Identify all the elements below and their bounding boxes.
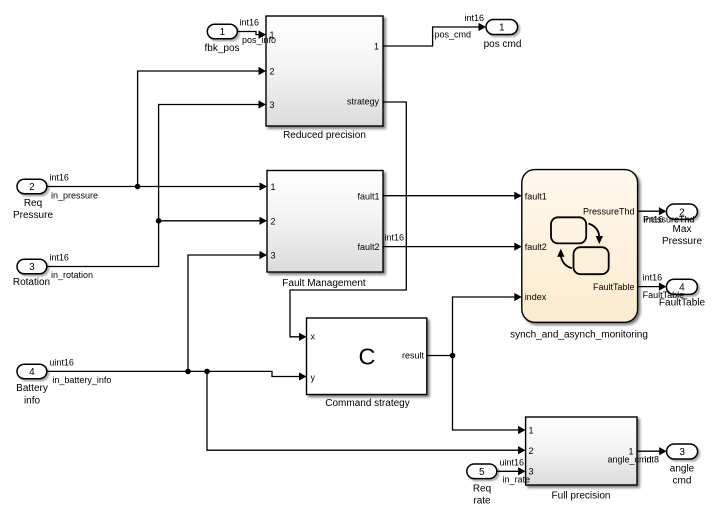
svg-text:C: C: [359, 343, 376, 369]
wire pressure branch to Reduced precision in2: [138, 67, 266, 187]
subsystem Fault Management: [267, 171, 383, 289]
chart synch_and_asynch_monitoring: [510, 170, 648, 341]
svg-text:Rotation: Rotation: [13, 277, 50, 288]
svg-text:2: 2: [29, 182, 35, 193]
chart icon state 2: [574, 247, 609, 274]
wire angle_cmd to port 3: [637, 447, 667, 455]
port out 3 angle cmd: [608, 444, 698, 486]
wire FaultTable to port 4: [638, 283, 667, 291]
svg-text:1: 1: [271, 182, 276, 192]
svg-text:Full precision: Full precision: [552, 491, 611, 502]
node junction battery branch 2: [204, 369, 210, 375]
svg-text:Max: Max: [673, 224, 692, 235]
port 3 Rotation: [13, 253, 93, 289]
svg-text:rate: rate: [473, 496, 491, 507]
wire fault2 to chart: [383, 233, 522, 251]
svg-text:int16: int16: [49, 172, 69, 182]
svg-text:strategy: strategy: [347, 96, 380, 106]
svg-text:fault1: fault1: [525, 191, 547, 201]
chart icon transition arrow left: [557, 249, 572, 268]
wire Battery info to Command strategy y: [47, 371, 307, 380]
svg-text:in_rate: in_rate: [503, 474, 531, 484]
svg-text:int16: int16: [240, 18, 260, 28]
svg-text:result: result: [402, 351, 425, 361]
svg-text:synch_and_asynch_monitoring: synch_and_asynch_monitoring: [510, 329, 648, 340]
port 1 fbk_pos: [204, 18, 276, 55]
wire Req Pressure to Fault Management in1: [47, 182, 267, 190]
wire Rotation to Reduced precision in3: [47, 100, 266, 266]
svg-text:1: 1: [220, 27, 226, 38]
node junction pressure branch: [135, 184, 141, 190]
svg-text:1: 1: [374, 42, 379, 52]
svg-text:Command strategy: Command strategy: [325, 398, 409, 409]
svg-text:2: 2: [270, 66, 275, 76]
subsystem Full precision: [526, 417, 637, 502]
svg-text:Fault Management: Fault Management: [282, 278, 366, 289]
svg-text:3: 3: [271, 251, 276, 261]
svg-text:1: 1: [529, 426, 534, 436]
svg-text:5: 5: [479, 467, 485, 478]
svg-text:3: 3: [270, 100, 275, 110]
node junction battery branch 1: [185, 369, 191, 375]
wire Reduced precision out1 to pos_cmd port: [383, 23, 486, 46]
port out 1 pos cmd: [435, 13, 522, 50]
wire result up to chart index: [453, 293, 522, 356]
svg-text:Req: Req: [24, 198, 42, 209]
svg-text:fault2: fault2: [357, 242, 379, 252]
wire fbk_pos to Reduced precision in1: [237, 31, 266, 39]
svg-text:Pressure: Pressure: [13, 210, 53, 221]
svg-text:2: 2: [529, 446, 534, 456]
svg-text:1: 1: [499, 23, 505, 34]
svg-text:pos_cmd: pos_cmd: [435, 30, 472, 40]
svg-text:angle: angle: [670, 463, 695, 474]
svg-text:int16: int16: [465, 13, 485, 23]
svg-text:fault1: fault1: [357, 192, 379, 202]
svg-text:info: info: [24, 396, 41, 407]
block Command strategy: [307, 318, 427, 409]
svg-text:int16: int16: [385, 233, 405, 243]
svg-text:Pressure: Pressure: [662, 236, 702, 247]
svg-text:pos_info: pos_info: [242, 35, 276, 45]
wire fault1 to chart: [383, 192, 522, 200]
svg-text:in_rotation: in_rotation: [51, 270, 93, 280]
wire PressureThd to port 2: [638, 207, 667, 215]
wire rotation branch to Fault Management in2: [159, 217, 267, 225]
svg-text:2: 2: [271, 216, 276, 226]
port 2 Req Pressure: [13, 172, 98, 221]
node junction result: [450, 353, 456, 359]
chart icon state 1: [551, 217, 586, 243]
wire result from Command strategy: [427, 355, 453, 357]
svg-text:fbk_pos: fbk_pos: [204, 43, 239, 54]
svg-text:Reduced precision: Reduced precision: [283, 130, 366, 141]
svg-text:FaultTable: FaultTable: [593, 282, 635, 292]
svg-text:index: index: [525, 292, 547, 302]
node junction rotation branch: [156, 218, 162, 224]
subsystem Reduced precision: [266, 16, 383, 141]
svg-text:Req: Req: [473, 484, 491, 495]
port out 4 FaultTable: [643, 273, 706, 309]
svg-text:y: y: [311, 373, 316, 383]
port 4 Battery info: [16, 357, 111, 406]
wire battery branch down to Full precision in2: [207, 371, 526, 454]
wire result down to Full precision in1: [453, 356, 526, 435]
svg-text:in_pressure: in_pressure: [51, 190, 98, 200]
svg-text:3: 3: [29, 262, 35, 273]
chart icon transition arrow right: [589, 224, 604, 245]
svg-text:in_battery_info: in_battery_info: [52, 375, 111, 385]
svg-text:uint16: uint16: [500, 457, 525, 467]
port out 2 Max Pressure: [643, 204, 702, 247]
svg-text:FaultTable: FaultTable: [659, 298, 706, 309]
svg-text:PressureThd: PressureThd: [583, 207, 635, 217]
wire battery branch up to Fault Management in3: [188, 251, 267, 372]
svg-text:int16: int16: [49, 253, 69, 263]
svg-text:x: x: [311, 332, 316, 342]
svg-text:Battery: Battery: [16, 383, 48, 394]
svg-text:cmd: cmd: [673, 475, 692, 486]
svg-text:4: 4: [29, 367, 35, 378]
svg-text:uint16: uint16: [49, 357, 74, 367]
port 5 Req rate: [467, 457, 530, 506]
svg-text:fault2: fault2: [525, 242, 547, 252]
svg-text:int16: int16: [643, 273, 663, 283]
wire strategy to Command strategy x: [290, 102, 406, 341]
svg-text:int8: int8: [645, 455, 660, 465]
svg-text:3: 3: [679, 447, 685, 458]
wire Req rate to Full precision in3: [497, 467, 526, 475]
svg-text:pos cmd: pos cmd: [484, 39, 522, 50]
